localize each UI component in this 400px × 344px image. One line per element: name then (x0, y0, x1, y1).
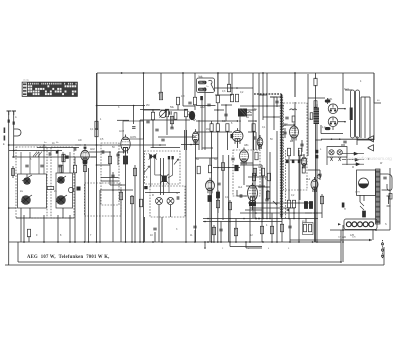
tube V6 (AF preamp) (206, 178, 215, 193)
wire bottom rail 3 (5, 264, 384, 266)
junction on chassis bus (213, 241, 215, 243)
wire AF line 2 (250, 207, 295, 209)
wire (209, 158, 211, 165)
wire (248, 131, 256, 133)
junction (344, 108, 346, 110)
capacitor C24 (318, 174, 321, 176)
grid cap blob V1 (84, 147, 87, 149)
wire stub (28, 236, 30, 242)
capacitor C38 (231, 158, 234, 160)
junction on chassis bus (204, 241, 206, 243)
wire (263, 116, 281, 118)
wire (74, 173, 76, 242)
antenna plug P1 (8, 120, 10, 123)
wire (181, 144, 199, 146)
resistor R25 (253, 168, 256, 176)
IF coil L5 (156, 198, 163, 205)
wire (177, 105, 179, 110)
resistor R19 (216, 95, 219, 103)
wire (213, 167, 240, 169)
wire (229, 200, 231, 242)
junction on chassis bus (207, 241, 209, 243)
capacitor C14 (111, 175, 114, 177)
wire rail (266, 73, 268, 218)
resistor R22 (216, 124, 219, 132)
wire (99, 190, 101, 242)
resistor R40 (266, 191, 269, 199)
resistor R48 (252, 173, 255, 181)
wire (301, 140, 303, 152)
resistor R33 (303, 224, 306, 232)
wire coil lead (57, 152, 59, 173)
wire (17, 242, 19, 262)
junction (266, 105, 268, 107)
junction (342, 241, 344, 243)
resistor R16 (130, 196, 133, 204)
junction (112, 189, 114, 191)
heater socket 4 (363, 222, 368, 227)
capacitor C30 (275, 101, 278, 103)
wire (74, 157, 76, 165)
resistor R65 (235, 165, 238, 171)
wire (12, 166, 14, 178)
wire (152, 110, 154, 112)
junction (262, 94, 264, 96)
wire (198, 120, 200, 150)
coil L2b (dark) (56, 195, 67, 205)
svg-text:1M: 1M (181, 95, 184, 98)
wire (148, 144, 166, 146)
wire (383, 247, 385, 265)
wire (254, 176, 256, 218)
junction (342, 229, 344, 231)
svg-text:AL4: AL4 (238, 186, 243, 189)
wire (288, 208, 290, 218)
coupling coil (68, 187, 73, 192)
wire anode lead (89, 151, 110, 153)
output transformer loop 2 (356, 90, 360, 138)
junction (143, 105, 145, 107)
wave trap coil (159, 110, 166, 117)
resistor R38 (260, 226, 263, 234)
tuner box I (18, 174, 47, 208)
osc coil bumps (239, 112, 252, 113)
tube V4 (converter) (232, 128, 243, 144)
antenna terminal A1 (7, 111, 12, 115)
wire (319, 170, 321, 180)
wire (61, 165, 63, 173)
junction (23, 241, 25, 243)
wire (281, 218, 283, 242)
wire (69, 215, 71, 242)
wire (43, 215, 45, 242)
heater line 1 (342, 153, 364, 155)
wire (140, 109, 160, 111)
wire (194, 230, 196, 242)
jack loop wire (380, 174, 392, 191)
wire (134, 165, 136, 242)
resistor R21 (210, 124, 213, 132)
wire (240, 162, 253, 164)
junction (88, 241, 90, 243)
tube V9 (magic eye) (301, 155, 306, 169)
IF1 tuning arrow A (144, 166, 150, 173)
junction (43, 241, 45, 243)
wire AVC bus (203, 218, 318, 220)
coupling capacitor C12 (49, 152, 51, 155)
wire (57, 215, 59, 242)
junction on chassis bus (298, 241, 300, 243)
autotransformer winding (hatched) (376, 169, 381, 224)
heater socket 1 (346, 222, 351, 227)
wire (12, 156, 97, 158)
wire (63, 154, 65, 162)
wire (252, 206, 254, 210)
wire (338, 121, 345, 123)
resistor R1 (47, 187, 54, 190)
resistor R8 (159, 92, 162, 100)
heater socket 5 (369, 222, 374, 227)
resistor R32 (292, 200, 295, 208)
wire (139, 120, 141, 242)
wire (222, 155, 224, 220)
wire (243, 162, 245, 185)
wire (281, 124, 295, 126)
junction (171, 119, 173, 121)
wire (289, 219, 291, 243)
svg-text:CBL1: CBL1 (199, 90, 205, 92)
junction (143, 72, 145, 74)
resistor R14 (176, 97, 179, 105)
IF1 coil blob pair A (149, 154, 158, 160)
wire drop from top rail (342, 73, 344, 104)
wire (62, 208, 64, 218)
resistor R15 (184, 109, 187, 117)
wire (171, 116, 173, 128)
capacitor C34 (219, 229, 222, 231)
wire (20, 208, 22, 242)
coil box V2 (123, 121, 144, 139)
capacitor C23 (300, 144, 303, 146)
wire (23, 215, 25, 242)
wire (131, 195, 133, 242)
wire signal line to RF stage (9, 144, 148, 146)
wire (308, 169, 320, 171)
resistor R37 (170, 116, 173, 124)
mixer input can (dashed) (85, 183, 122, 216)
junction on AVC bus (207, 218, 209, 220)
resistor R61 (292, 116, 295, 122)
junction (236, 87, 238, 89)
dial lamp 1 (329, 150, 334, 161)
capacitor C29 (207, 104, 210, 106)
resistor R13 (165, 109, 168, 117)
wire (185, 117, 187, 242)
V7 socket dark blob (249, 202, 256, 206)
resistor R64 (221, 163, 224, 171)
wire (359, 195, 361, 202)
wire (214, 109, 224, 111)
wire (117, 119, 129, 121)
capacitor C22 (283, 132, 286, 134)
resistor R3 (cathode) (83, 160, 87, 164)
resistor R44 (62, 154, 65, 162)
trimmer C2 (40, 165, 43, 167)
wire (101, 180, 119, 182)
wire can bottom tie (16, 217, 74, 219)
wire (235, 219, 237, 243)
wire drop from top rail (182, 73, 184, 106)
junction (96, 164, 98, 166)
rectifier tube circle 2 (328, 117, 338, 127)
svg-text:2M: 2M (146, 104, 149, 107)
resistor R47 (267, 173, 270, 181)
heater terminal strip (344, 219, 377, 230)
wire (217, 103, 219, 124)
wire (305, 218, 307, 223)
IF1 bottom blob (144, 186, 147, 189)
detector shield (dashed) (284, 103, 308, 190)
junction (217, 72, 219, 74)
coil L2a (dark) (57, 176, 66, 184)
heater pill top (325, 100, 331, 103)
wire (9, 150, 62, 152)
resistor R51 (174, 113, 177, 120)
wire (151, 146, 180, 148)
junction (225, 104, 227, 106)
wire (166, 117, 168, 135)
junction (166, 109, 168, 111)
junction (152, 109, 154, 111)
wire (225, 105, 227, 121)
wire (204, 88, 206, 92)
wire (261, 165, 263, 242)
grid cap circle V10 (317, 175, 321, 179)
IF1 tuning arrow B (174, 159, 179, 165)
junction (182, 72, 184, 74)
rectifier tube circle 1 (328, 104, 338, 114)
resistor R3b (83, 166, 86, 172)
junction (121, 72, 123, 74)
wire (372, 230, 374, 241)
junction (217, 167, 219, 169)
resistor R50 (309, 202, 312, 209)
wire mains line (308, 97, 325, 99)
heater pill bottom (325, 127, 331, 130)
tube V11 (small) (257, 135, 263, 149)
IF transformer can I (dashed) (145, 151, 181, 184)
resistor R24 (252, 124, 255, 132)
wire (118, 151, 126, 153)
junction (252, 105, 254, 107)
junction (57, 241, 59, 243)
wire (357, 139, 374, 141)
junction on chassis bus (276, 241, 278, 243)
junction (255, 120, 257, 122)
junction (298, 202, 300, 204)
capacitor C17 (161, 139, 164, 141)
junction (69, 241, 71, 243)
wire (100, 189, 133, 191)
wire (258, 186, 270, 188)
wire (294, 102, 296, 134)
osc ground blob (200, 96, 203, 100)
tuner box II (56, 173, 73, 208)
wire (145, 192, 180, 194)
resistor R4 (95, 129, 98, 137)
wire (321, 194, 323, 218)
antenna coupling tab (14, 129, 21, 136)
wire (360, 97, 362, 138)
wire (273, 97, 275, 130)
wire IF1 lead b (154, 158, 156, 175)
junction on AVC bus (298, 218, 300, 220)
strip arrow (338, 223, 341, 225)
wire (240, 164, 262, 166)
IF1 coupling network (dark) (160, 174, 169, 184)
wire stub (57, 151, 59, 153)
wire V2 cathode down (125, 151, 127, 242)
wire (267, 190, 269, 200)
wire (356, 136, 358, 145)
anode choke hatch (189, 111, 196, 121)
wire (237, 195, 247, 197)
wire (294, 73, 296, 97)
wire drop from top rail (228, 73, 230, 85)
wire (270, 96, 277, 98)
wire (220, 222, 222, 243)
junction (96, 105, 98, 107)
wire drop from top rail (143, 73, 145, 110)
capacitor C31 (132, 127, 135, 129)
junction (13, 150, 15, 152)
junction (331, 138, 333, 140)
wire (201, 97, 203, 150)
junction (235, 241, 237, 243)
wire chassis bus (9, 241, 340, 243)
wire (168, 175, 173, 178)
right edge component (389, 194, 392, 200)
pot wiper arrow (286, 209, 289, 211)
wire (321, 133, 343, 135)
wire (144, 217, 146, 242)
wire (246, 185, 265, 187)
junction on chassis bus (229, 241, 231, 243)
capacitor C35 (288, 226, 291, 228)
junction (220, 241, 222, 243)
resistor R20 (235, 94, 238, 102)
wire (13, 151, 15, 158)
junction (204, 221, 206, 223)
resistor R29 (287, 148, 290, 156)
wire (276, 97, 278, 107)
junction (190, 144, 192, 146)
junction (194, 136, 196, 138)
wire (186, 130, 188, 150)
arrow end (369, 239, 372, 241)
wire (120, 190, 122, 242)
pickup motor dot (359, 184, 369, 189)
capacitor C8 (170, 127, 173, 129)
resistor R43 (95, 121, 98, 129)
wire (109, 152, 111, 185)
svg-text:AL4: AL4 (306, 178, 311, 181)
wire (316, 241, 342, 243)
resistor R6 (cathode bias) (123, 156, 127, 164)
wire IF1 lead a (150, 158, 152, 186)
wire (140, 119, 190, 121)
capacitor C32 (265, 199, 268, 201)
wire (316, 139, 323, 141)
wire (160, 158, 162, 195)
wire (204, 242, 206, 248)
wire (237, 143, 239, 149)
junction on AVC bus (258, 218, 260, 220)
wire coil lead (43, 152, 45, 174)
resistor R53 (234, 228, 237, 236)
capacitor C20 (383, 177, 386, 179)
wire (364, 97, 366, 138)
trimmer C3 (58, 165, 61, 167)
resistor R23 (226, 124, 229, 132)
wire (143, 110, 145, 242)
band filter can I (dashed) (16, 147, 47, 218)
resistor R36 (119, 192, 122, 200)
junction (294, 72, 296, 74)
grid cap blob V4 (231, 134, 234, 138)
det coil bumps (290, 109, 297, 110)
wire drop from top rail (160, 73, 162, 99)
svg-text:AM2: AM2 (300, 154, 306, 157)
wire coil lead (38, 152, 40, 174)
junction (228, 167, 230, 169)
coil L1a (dark) (22, 174, 32, 185)
wire B- return (290, 239, 372, 241)
resistor R55 (208, 165, 211, 173)
junction (109, 151, 111, 153)
earth terminal mark (4, 128, 6, 134)
tube socket voltage table (22, 82, 78, 97)
svg-text:220V: 220V (355, 192, 361, 194)
junction on chassis bus (185, 241, 187, 243)
trimmer C1 (25, 165, 28, 167)
detector can (dashed) (233, 150, 260, 196)
heater arrow 3 (353, 163, 360, 166)
wire (284, 128, 286, 138)
resistor R7 (133, 168, 136, 176)
wire screen rail (96, 73, 98, 242)
wire (338, 108, 345, 110)
wire drop from top rail (262, 73, 264, 120)
pickup box (357, 170, 376, 195)
wire (196, 105, 216, 107)
junction on AVC bus (281, 218, 283, 220)
junction (293, 212, 295, 214)
capacitor C26 (193, 226, 196, 228)
junction (249, 241, 251, 243)
wire (170, 205, 172, 217)
wire (195, 143, 197, 242)
wire antenna down-lead / left bus (8, 115, 10, 265)
junction (289, 241, 291, 243)
RF output can (dashed) (101, 143, 119, 205)
wire (330, 229, 390, 231)
junction (261, 221, 263, 223)
wire (155, 174, 160, 176)
capacitor C16 (188, 102, 191, 104)
wire (298, 150, 300, 242)
resistor R35 (73, 165, 76, 173)
